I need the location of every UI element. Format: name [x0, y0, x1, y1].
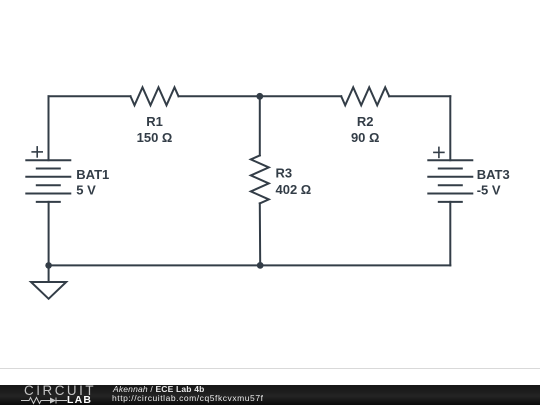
- CircuitLab logo wordmark CIRCUIT: [24, 386, 96, 396]
- footer bar: [0, 385, 540, 405]
- wire bottom-left rail: [49, 264, 261, 266]
- svg-text:BAT3: BAT3: [477, 167, 510, 182]
- footer title line: [113, 385, 205, 393]
- canvas bottom separator line: [0, 368, 540, 369]
- svg-text:402 Ω: 402 Ω: [276, 182, 312, 197]
- svg-text:90 Ω: 90 Ω: [351, 130, 380, 145]
- svg-text:-5 V: -5 V: [477, 182, 501, 197]
- wire R2 to top-right corner: [389, 95, 450, 97]
- wire right rail top: [449, 96, 451, 160]
- svg-text:R1: R1: [146, 114, 163, 129]
- CircuitLab logo squiggle (resistor + diode): [20, 396, 68, 405]
- node B junction dot: [257, 262, 264, 269]
- svg-text:R3: R3: [276, 166, 293, 181]
- ground node junction dot: [45, 262, 52, 269]
- battery BAT3 plates: [428, 160, 472, 202]
- svg-text:BAT1: BAT1: [76, 167, 109, 182]
- wire node A to R2: [260, 95, 341, 97]
- wire top-left rail: [49, 95, 131, 97]
- node A junction dot: [256, 93, 263, 100]
- wire right rail bottom: [449, 202, 451, 266]
- BAT3 plus sign: [434, 147, 444, 157]
- battery BAT1 plates: [26, 160, 70, 202]
- resistor R1: [131, 87, 179, 105]
- svg-text:150 Ω: 150 Ω: [137, 130, 173, 145]
- ground symbol: [31, 282, 66, 299]
- logo wire with resistor zigzag and diode: [21, 398, 50, 404]
- resistor R2: [341, 87, 389, 105]
- resistor R3: [251, 155, 269, 203]
- svg-text:5 V: 5 V: [76, 182, 96, 197]
- wire bottom-right rail: [260, 264, 450, 266]
- BAT1 plus sign: [32, 147, 42, 157]
- wire left rail bottom: [48, 202, 50, 266]
- footer url line: [112, 394, 264, 402]
- wire R3 top lead: [259, 96, 261, 155]
- wire R3 bottom lead: [259, 203, 261, 265]
- ground stem wire: [48, 265, 50, 282]
- wire R1 to node A: [179, 95, 260, 97]
- svg-text:R2: R2: [357, 114, 374, 129]
- wire left rail top: [48, 96, 50, 160]
- CircuitLab logo wordmark LAB: [67, 396, 92, 404]
